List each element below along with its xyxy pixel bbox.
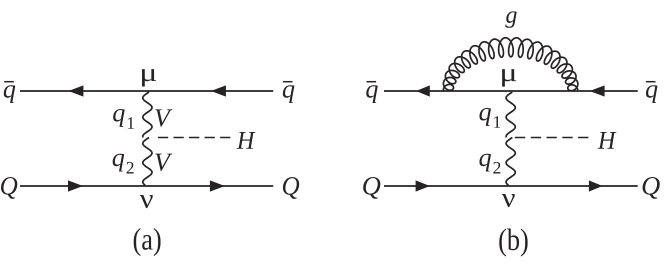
label Q left (a) xyxy=(1,177,17,199)
label qbar left (a) xyxy=(4,85,16,103)
label qbar left (b) xyxy=(366,85,378,103)
label H (a) xyxy=(237,132,256,149)
arrow on top line, right (b) points left xyxy=(590,85,605,96)
label mu (b) xyxy=(502,69,516,86)
wire: antiquark line top (b) xyxy=(384,90,638,92)
label nu (a) xyxy=(140,195,153,208)
label Q right (b) xyxy=(643,177,660,199)
arrow on top line, right (a) points left xyxy=(211,85,226,96)
arrow on top line, left (b) points left xyxy=(416,85,430,96)
arrow on bottom line, right (a) points right xyxy=(210,180,225,191)
wire: antiquark line top (a) xyxy=(20,90,273,92)
wire: quark line bottom (b) xyxy=(384,185,638,187)
caption (b) xyxy=(499,228,527,256)
arrow on top line, left (a) points left xyxy=(68,85,83,96)
arrow on bottom line, left (a) points right xyxy=(68,180,83,191)
label V lower (a) xyxy=(155,154,172,171)
boson propagator q2 (a): wavy line VVH vertex to nu vertex xyxy=(143,138,152,186)
boson propagator q1 (a): wavy line mu vertex to VVH vertex xyxy=(143,92,152,138)
label q1 (b) xyxy=(479,108,500,128)
boson propagator q1 (b): wavy line mu vertex to VVH vertex xyxy=(506,92,515,138)
label Q right (a) xyxy=(283,177,299,199)
boson propagator q2 (b): wavy line VVH vertex to nu vertex xyxy=(506,138,515,186)
label V upper (a) xyxy=(155,109,172,126)
Higgs dashed line (a) xyxy=(158,137,231,139)
Higgs dashed line (b) xyxy=(515,137,589,139)
gluon loop g (b): curly arc over top line xyxy=(443,38,578,92)
wire: quark line bottom (a) xyxy=(20,185,273,187)
arrow on bottom line, left (b) points right xyxy=(416,180,430,191)
caption (a) xyxy=(134,228,161,256)
label g on gluon (b) xyxy=(505,11,516,27)
label q2 (b) xyxy=(479,154,500,174)
label Q left (b) xyxy=(363,177,380,199)
label qbar right (b) xyxy=(646,85,658,103)
label nu (b) xyxy=(502,194,515,207)
label mu (a) xyxy=(142,69,156,86)
label q1 (a) xyxy=(113,109,134,129)
label q2 (a) xyxy=(113,154,134,174)
arrow on bottom line, right (b) points right xyxy=(589,180,603,191)
label H (b) xyxy=(598,132,617,149)
label qbar right (a) xyxy=(283,85,295,103)
